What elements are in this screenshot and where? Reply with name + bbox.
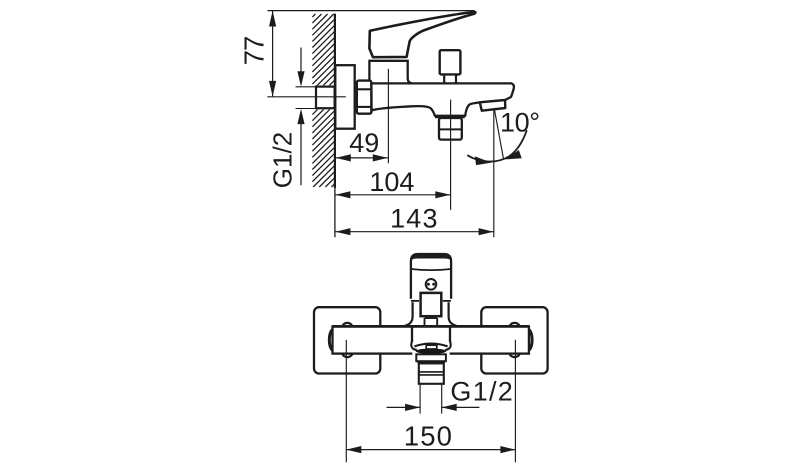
spout column sides — [412, 327, 450, 342]
handle (front) — [411, 254, 451, 299]
top extension line (level of handle tip) — [268, 10, 475, 12]
spout opening (dark lens) — [416, 349, 446, 354]
dark band under collar — [417, 361, 445, 363]
wall flange — [335, 65, 354, 129]
diverter knob (front) — [421, 293, 442, 326]
left tube end bracket — [329, 329, 332, 350]
handle screw — [426, 279, 437, 290]
spout lip left — [411, 341, 417, 350]
screw bumps right plate — [509, 323, 519, 357]
escutcheon skirt — [405, 302, 456, 325]
stub extension lines — [296, 87, 317, 109]
dimension 104 — [335, 167, 450, 198]
lever handle — [369, 12, 475, 57]
extension line 104 (shower axis) — [450, 100, 452, 210]
shower hose connector (side) — [439, 118, 462, 140]
dimension 150 — [346, 421, 515, 454]
white patch over tube bottom behind spout — [412, 352, 449, 355]
150 extension lines — [346, 340, 515, 463]
svg-text:10°: 10° — [500, 107, 540, 137]
cartridge cap — [369, 61, 412, 84]
svg-text:104: 104 — [369, 167, 414, 197]
dimension 49 — [336, 128, 388, 162]
G1/2 extension lines (front) — [420, 385, 442, 414]
10 degree arc with arrows — [467, 107, 539, 165]
spout rim arc — [414, 344, 447, 347]
shower outlet cylinder (front) — [419, 363, 444, 383]
svg-text:G1/2: G1/2 — [268, 132, 298, 188]
svg-text:49: 49 — [349, 128, 379, 158]
svg-text:150: 150 — [404, 421, 453, 452]
svg-text:143: 143 — [390, 203, 439, 233]
wall face line — [334, 14, 336, 238]
spout outlet fitting (tilted) — [480, 100, 506, 111]
diverter knob (side) — [440, 50, 461, 83]
shower shoulder bar — [435, 115, 465, 118]
spout lip right — [445, 341, 451, 350]
dimension 77 — [238, 11, 276, 97]
G1/2 pipe stub — [312, 85, 335, 109]
right tube end bracket — [529, 329, 532, 350]
pipe axis line — [267, 96, 346, 98]
wall hatch — [312, 14, 334, 187]
faucet body — [371, 83, 514, 115]
G1/2 label arrows (side) — [268, 48, 305, 189]
10 degree slanted line — [494, 109, 503, 158]
extension line 143 (spout axis) — [493, 109, 495, 237]
body tube — [333, 326, 529, 353]
collar ticks — [411, 300, 451, 302]
left wall plate — [314, 307, 380, 373]
right wall plate — [481, 307, 547, 373]
dimension 143 — [335, 203, 493, 235]
extension line 49 (cartridge axis) — [387, 69, 389, 164]
collar band — [416, 354, 446, 361]
screw bumps left plate — [342, 323, 352, 357]
svg-text:77: 77 — [238, 37, 269, 66]
G1/2 dimension (front) — [387, 377, 515, 411]
aerator notch — [426, 345, 437, 349]
hex nut — [357, 81, 372, 114]
svg-text:G1/2: G1/2 — [450, 377, 514, 407]
